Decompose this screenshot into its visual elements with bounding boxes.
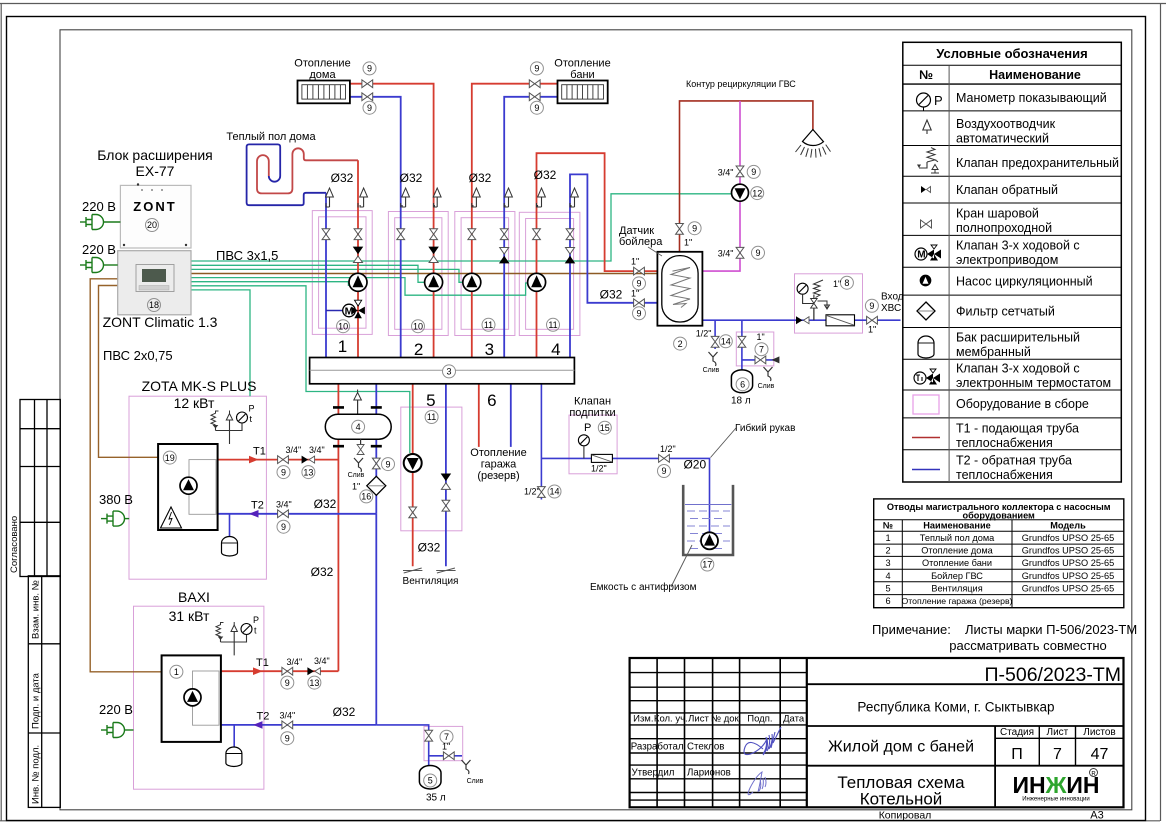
svg-text:электроприводом: электроприводом bbox=[956, 253, 1058, 267]
T2 line bbox=[912, 469, 940, 471]
svg-text:9: 9 bbox=[661, 466, 666, 476]
svg-text:Слив: Слив bbox=[758, 383, 775, 390]
svg-text:Вентиляция: Вентиляция bbox=[403, 576, 459, 587]
svg-text:9: 9 bbox=[281, 522, 286, 532]
pipe red group 4 to DHW tank bbox=[537, 153, 673, 357]
BAXI expansion tank bbox=[226, 747, 242, 767]
pipe blue BAXI boiler tank stub bbox=[233, 725, 235, 748]
signatures bbox=[744, 727, 781, 755]
svg-text:Ø20: Ø20 bbox=[683, 458, 706, 472]
legend symbols bbox=[912, 93, 943, 470]
svg-text:Оборудование в сборе: Оборудование в сборе bbox=[956, 397, 1089, 411]
BAXI boiler body bbox=[162, 655, 221, 742]
svg-text:Grundfos UPSO 25-65: Grundfos UPSO 25-65 bbox=[1022, 558, 1114, 568]
T1 line bbox=[912, 437, 940, 439]
svg-text:380 В: 380 В bbox=[99, 492, 133, 507]
svg-text:3/4": 3/4" bbox=[286, 445, 302, 455]
svg-text:автоматический: автоматический bbox=[956, 132, 1049, 146]
svg-text:7: 7 bbox=[444, 732, 449, 742]
group 5 pump bbox=[404, 454, 422, 472]
BAXI T1 check valve bbox=[307, 667, 320, 675]
svg-text:9: 9 bbox=[534, 103, 539, 113]
svg-text:1: 1 bbox=[338, 337, 347, 356]
ZOTA T1 valve bbox=[278, 456, 289, 464]
svg-text:3/4": 3/4" bbox=[309, 445, 325, 455]
svg-text:Емкость с антифризом: Емкость с антифризом bbox=[590, 581, 697, 593]
pipe blue floor-heating coil return bbox=[247, 144, 326, 205]
equipment box HVS inlet 8 bbox=[795, 274, 863, 333]
svg-text:3/4": 3/4" bbox=[718, 168, 734, 178]
riser stubs for vents bbox=[326, 203, 570, 208]
svg-text:9: 9 bbox=[285, 733, 290, 743]
svg-text:Подп. и дата: Подп. и дата bbox=[31, 672, 42, 729]
svg-text:11: 11 bbox=[484, 320, 493, 330]
cold water check valve bbox=[796, 316, 809, 324]
svg-text:R: R bbox=[1091, 772, 1096, 778]
svg-text:Наименование: Наименование bbox=[989, 68, 1081, 82]
svg-text:12 кВт: 12 кВт bbox=[174, 395, 215, 411]
svg-text:18 л: 18 л bbox=[731, 396, 751, 407]
svg-text:220 В: 220 В bbox=[99, 702, 133, 717]
svg-text:Взам. инв. №: Взам. инв. № bbox=[31, 580, 42, 639]
svg-text:Изм.: Изм. bbox=[633, 714, 653, 725]
svg-text:теплоснабжения: теплоснабжения bbox=[956, 436, 1053, 450]
svg-text:9: 9 bbox=[636, 309, 641, 319]
pipe red collector to separator bbox=[337, 384, 339, 415]
ZONT expansion block EX-77 bbox=[120, 183, 191, 248]
svg-text:Листы марки П-506/2023-ТМ: Листы марки П-506/2023-ТМ bbox=[965, 622, 1137, 637]
makeup drop valve 14 bbox=[538, 487, 546, 498]
svg-text:19: 19 bbox=[165, 453, 175, 463]
svg-text:1": 1" bbox=[442, 742, 450, 752]
pipe red separator down to T1 BAXI bbox=[337, 439, 339, 671]
expansion tank 5 (35 l) bbox=[419, 765, 441, 789]
svg-text:Клапан 3-х ходовой с: Клапан 3-х ходовой с bbox=[956, 362, 1080, 376]
svg-text:Контур рециркуляции ГВС: Контур рециркуляции ГВС bbox=[686, 79, 796, 89]
svg-text:11: 11 bbox=[548, 320, 557, 330]
svg-text:Т2: Т2 bbox=[251, 500, 264, 512]
svg-text:12: 12 bbox=[752, 188, 762, 198]
wire green to pump 3 bbox=[191, 269, 463, 282]
ZOTA T2 arrow bbox=[249, 510, 259, 518]
svg-text:9: 9 bbox=[281, 467, 286, 477]
svg-text:Grundfos UPSO 25-65: Grundfos UPSO 25-65 bbox=[1022, 571, 1114, 581]
svg-text:Листов: Листов bbox=[1083, 727, 1116, 738]
svg-text:14: 14 bbox=[549, 487, 559, 497]
svg-text:4: 4 bbox=[356, 422, 361, 432]
svg-text:Клапан обратный: Клапан обратный bbox=[956, 183, 1058, 197]
svg-text:3/4": 3/4" bbox=[276, 500, 292, 510]
svg-text:№ док.: № док. bbox=[711, 714, 741, 725]
ball valve bbox=[921, 220, 932, 228]
svg-text:Стеклов: Стеклов bbox=[687, 742, 724, 753]
svg-text:9: 9 bbox=[534, 64, 539, 74]
svg-text:ПВС 2х0,75: ПВС 2х0,75 bbox=[103, 348, 173, 363]
wire green to pump 4 bbox=[191, 278, 528, 296]
ZOTA T2 valve bbox=[278, 510, 289, 518]
svg-text:Отопление: Отопление bbox=[294, 58, 350, 70]
svg-text:Т1 - подающая труба: Т1 - подающая труба bbox=[956, 422, 1079, 436]
svg-text:9: 9 bbox=[755, 248, 760, 258]
radiator bath heating bbox=[558, 81, 608, 104]
pumps groups 1-4 bbox=[349, 273, 367, 291]
svg-text:6: 6 bbox=[885, 596, 890, 606]
svg-text:Фильтр сетчатый: Фильтр сетчатый bbox=[956, 305, 1055, 319]
wire green to ZOTA bbox=[191, 290, 250, 396]
svg-text:16: 16 bbox=[361, 492, 371, 502]
svg-text:подпитки: подпитки bbox=[569, 407, 615, 419]
svg-text:2: 2 bbox=[414, 340, 423, 359]
svg-text:бани: бани bbox=[570, 69, 594, 81]
pipe red floor-heating coil supply bbox=[257, 148, 358, 193]
svg-text:3/4": 3/4" bbox=[287, 657, 303, 667]
svg-text:5: 5 bbox=[885, 583, 890, 593]
svg-text:47: 47 bbox=[1091, 746, 1109, 763]
svg-text:9: 9 bbox=[636, 279, 641, 289]
svg-text:1": 1" bbox=[631, 257, 639, 267]
pipe blue T2 down to BAXI bbox=[375, 514, 377, 725]
svg-text:№: № bbox=[883, 521, 893, 531]
pipe red group 3 to bath radiator bbox=[472, 84, 558, 358]
svg-text:1/2": 1/2" bbox=[660, 444, 676, 454]
shower head bbox=[796, 130, 831, 158]
svg-text:Примечание:: Примечание: bbox=[872, 622, 951, 637]
svg-text:Ø32: Ø32 bbox=[331, 171, 354, 185]
pipe blue drop to drain valve 14 bbox=[714, 320, 716, 349]
equipment box BAXI assembly 1 bbox=[134, 606, 264, 789]
filter strainer 16 bbox=[367, 476, 386, 495]
svg-text:Слив: Слив bbox=[703, 367, 720, 374]
equipment box group 4 bbox=[519, 212, 580, 335]
svg-text:Отопление дома: Отопление дома bbox=[921, 546, 993, 556]
svg-text:Подп.: Подп. bbox=[747, 714, 772, 725]
svg-text:Ø32: Ø32 bbox=[418, 541, 441, 555]
svg-text:Утвердил: Утвердил bbox=[632, 768, 675, 779]
left section horizontals bbox=[630, 673, 807, 801]
makeup valve assembly 15 bbox=[578, 435, 612, 463]
plug 380V to ZOTA bbox=[101, 511, 129, 526]
flexible hose leader bbox=[711, 428, 737, 458]
svg-text:Наименование: Наименование bbox=[923, 521, 990, 531]
check valves groups bbox=[354, 247, 363, 263]
pipe blue BAXI to expansion tank 5 bbox=[376, 725, 462, 766]
svg-text:3: 3 bbox=[885, 558, 890, 568]
svg-text:7: 7 bbox=[1053, 746, 1062, 763]
svg-text:1: 1 bbox=[174, 667, 179, 677]
svg-text:Ø32: Ø32 bbox=[333, 705, 356, 719]
svg-text:5: 5 bbox=[426, 391, 435, 410]
svg-text:Кран шаровой: Кран шаровой bbox=[956, 207, 1039, 221]
svg-text:Отопление гаража (резерв): Отопление гаража (резерв) bbox=[902, 596, 1013, 606]
svg-text:3/4": 3/4" bbox=[718, 249, 734, 259]
pipe red group 1 riser bbox=[357, 160, 359, 357]
svg-text:Теплый пол дома: Теплый пол дома bbox=[920, 533, 995, 543]
equipment box ZOTA assembly 19 bbox=[129, 396, 266, 579]
svg-text:Отопление: Отопление bbox=[470, 447, 526, 459]
pipe darkred DHW supply to shower bbox=[680, 101, 813, 252]
pipe blue group 6 garage bbox=[510, 384, 512, 447]
filter bbox=[917, 302, 935, 320]
svg-text:Воздухоотводчик: Воздухоотводчик bbox=[956, 117, 1056, 131]
filter fine box 8 bbox=[826, 315, 855, 326]
drain valve 14 under tank bbox=[711, 336, 719, 347]
ball valves group risers bbox=[322, 229, 330, 240]
hydraulic separator 4 bbox=[325, 390, 391, 480]
svg-text:Инв. № подл.: Инв. № подл. bbox=[31, 745, 42, 804]
svg-text:гаража: гаража bbox=[481, 459, 517, 471]
svg-text:Блок расширения: Блок расширения bbox=[97, 147, 213, 163]
wire brown to BAXI boiler bbox=[90, 279, 161, 672]
svg-text:Бойлер ГВС: Бойлер ГВС bbox=[931, 571, 983, 581]
magenta valves and pump 12 bbox=[736, 166, 744, 177]
svg-text:Ларионов: Ларионов bbox=[687, 768, 731, 779]
svg-text:оборудованием: оборудованием bbox=[963, 511, 1036, 521]
air vents on risers bbox=[326, 188, 334, 207]
svg-text:Гибкий рукав: Гибкий рукав bbox=[735, 422, 795, 434]
pipe blue group 5 ventilation bbox=[445, 384, 447, 567]
svg-text:Клапан 3-х ходовой с: Клапан 3-х ходовой с bbox=[956, 239, 1080, 253]
radiator house heating bbox=[298, 81, 350, 104]
svg-text:ZONT Climatic 1.3: ZONT Climatic 1.3 bbox=[103, 314, 218, 330]
collector 3 bbox=[310, 358, 575, 384]
svg-text:Т2: Т2 bbox=[257, 711, 270, 723]
svg-text:1/2": 1/2" bbox=[696, 329, 712, 339]
svg-text:Клапан предохранительный: Клапан предохранительный bbox=[956, 156, 1119, 170]
plug 220V to ZONT bbox=[80, 258, 118, 273]
pressure reducer box 8 bbox=[797, 280, 829, 320]
expansion tank 6 (18 l) bbox=[731, 370, 752, 393]
svg-text:Ø32: Ø32 bbox=[314, 497, 337, 511]
svg-text:электронным термостатом: электронным термостатом bbox=[956, 376, 1111, 390]
svg-text:Республика Коми, г. Сыктывкар: Республика Коми, г. Сыктывкар bbox=[857, 700, 1054, 715]
3-way valve M group 1 bbox=[326, 300, 365, 318]
svg-text:Слив: Слив bbox=[467, 778, 484, 785]
svg-text:7: 7 bbox=[759, 344, 764, 354]
expansion tank bbox=[918, 336, 934, 358]
svg-text:35 л: 35 л bbox=[426, 793, 446, 804]
wire brown to ZOTA boiler bbox=[99, 286, 159, 458]
pipe blue separator to filter to T2 ZOTA bbox=[375, 439, 377, 514]
svg-text:10: 10 bbox=[338, 321, 348, 331]
pipe red T1 ZOTA bbox=[218, 459, 339, 461]
svg-text:Grundfos UPSO 25-65: Grundfos UPSO 25-65 bbox=[1022, 583, 1114, 593]
equipment box group 1 bbox=[312, 211, 372, 335]
svg-text:теплоснабжения: теплоснабжения bbox=[956, 468, 1053, 482]
svg-text:15: 15 bbox=[600, 423, 610, 433]
svg-text:9: 9 bbox=[692, 223, 697, 233]
svg-text:Т1: Т1 bbox=[256, 657, 269, 669]
svg-text:Р: Р bbox=[584, 422, 591, 434]
ZONT Climatic 1.3 controller bbox=[118, 251, 191, 315]
svg-text:Т1: Т1 bbox=[253, 446, 266, 458]
svg-text:Клапан: Клапан bbox=[574, 396, 611, 408]
pipe red radiator house to group 2 bbox=[350, 84, 434, 358]
BAXI T1 arrow bbox=[253, 667, 263, 675]
INGIN logo bbox=[1012, 769, 1099, 803]
svg-text:Бак расширительный: Бак расширительный bbox=[956, 331, 1080, 345]
svg-text:М: М bbox=[917, 250, 925, 261]
antifreeze tank 17 bbox=[590, 485, 733, 593]
svg-text:П: П bbox=[1011, 746, 1023, 763]
svg-text:бойлера: бойлера bbox=[619, 236, 663, 248]
valve 7 tank 6 bbox=[738, 336, 746, 347]
BAXI pump bbox=[184, 689, 201, 706]
svg-text:А3: А3 bbox=[1090, 810, 1103, 822]
wire brown sensor to boiler tank bbox=[191, 273, 657, 275]
check valve bbox=[921, 186, 931, 193]
svg-text:Условные обозначения: Условные обозначения bbox=[936, 46, 1087, 61]
svg-text:Ø32: Ø32 bbox=[600, 288, 623, 302]
group 5 valves bbox=[409, 507, 417, 518]
valve above filter bbox=[372, 458, 380, 469]
cold water shutoff valve 1" bbox=[867, 316, 878, 324]
pipe blue group 1 riser bbox=[325, 193, 327, 358]
pipe red group 5 ventilation bbox=[412, 384, 414, 567]
svg-text:1/2": 1/2" bbox=[591, 464, 607, 474]
ZOTA safety group bbox=[211, 404, 255, 445]
svg-text:Разработал: Разработал bbox=[631, 742, 684, 753]
pipe blue group 4 to DHW tank bbox=[570, 174, 671, 357]
svg-text:Р: Р bbox=[249, 404, 255, 414]
wire green to pump 12 bbox=[191, 194, 733, 261]
svg-text:Вентиляция: Вентиляция bbox=[931, 583, 982, 593]
svg-text:П-506/2023-ТМ: П-506/2023-ТМ bbox=[985, 664, 1122, 686]
pump bbox=[920, 275, 930, 285]
svg-text:20: 20 bbox=[147, 220, 157, 230]
svg-text:Ø32: Ø32 bbox=[311, 565, 334, 579]
equipment box group 3 bbox=[455, 212, 515, 336]
svg-text:№: № bbox=[919, 68, 933, 82]
darkred valve to tank bbox=[676, 224, 684, 235]
svg-text:BAXI: BAXI bbox=[178, 589, 210, 605]
pipe blue manometer stem box 8 bbox=[813, 295, 815, 321]
svg-text:Вход: Вход bbox=[881, 292, 904, 303]
DHW boiler tank 2 bbox=[657, 252, 702, 326]
ZOTA T1 arrow bbox=[249, 456, 259, 464]
svg-text:3: 3 bbox=[485, 340, 494, 359]
svg-text:Согласовано: Согласовано bbox=[9, 516, 20, 573]
svg-text:Лист: Лист bbox=[688, 714, 709, 725]
svg-text:17: 17 bbox=[702, 560, 712, 570]
BAXI T1 valve bbox=[282, 667, 293, 675]
pipe red T1 BAXI bbox=[221, 670, 339, 672]
manometer+P bbox=[917, 93, 931, 111]
svg-text:11: 11 bbox=[427, 412, 436, 422]
svg-text:мембранный: мембранный bbox=[956, 345, 1031, 359]
pipe blue radiator house to group 2 bbox=[350, 97, 401, 358]
BAXI tank 5 valve bbox=[425, 730, 433, 741]
group 4 riser valves 1" bbox=[634, 267, 645, 275]
svg-text:4: 4 bbox=[551, 340, 560, 359]
svg-text:ИНЖИН: ИНЖИН bbox=[1012, 772, 1099, 798]
plug 220V to BAXI bbox=[101, 723, 134, 738]
svg-text:220 В: 220 В bbox=[82, 242, 116, 257]
pipe blue cold water inlet line bbox=[702, 319, 900, 321]
svg-text:3: 3 bbox=[446, 367, 451, 377]
svg-text:Ø32: Ø32 bbox=[534, 168, 557, 182]
svg-text:18: 18 bbox=[149, 300, 159, 310]
svg-text:Инженерные инновации: Инженерные инновации bbox=[1022, 797, 1090, 803]
left section verticals bbox=[657, 658, 780, 807]
svg-text:13: 13 bbox=[303, 467, 313, 477]
svg-text:Лист: Лист bbox=[1047, 727, 1069, 738]
svg-text:Grundfos UPSO 25-65: Grundfos UPSO 25-65 bbox=[1022, 533, 1114, 543]
svg-text:5: 5 bbox=[428, 776, 433, 786]
radiator house valves bbox=[362, 80, 373, 88]
svg-text:ZOTA MK-S PLUS: ZOTA MK-S PLUS bbox=[142, 378, 257, 394]
svg-text:1": 1" bbox=[684, 238, 692, 248]
pink box sample bbox=[913, 395, 939, 414]
svg-text:ЕХ-77: ЕХ-77 bbox=[136, 163, 175, 179]
svg-text:8: 8 bbox=[844, 278, 849, 288]
3-way motor valve bbox=[915, 245, 941, 261]
svg-text:3/4": 3/4" bbox=[280, 711, 296, 721]
svg-text:1: 1 bbox=[885, 533, 890, 543]
svg-text:Р: Р bbox=[253, 615, 259, 625]
svg-text:6: 6 bbox=[487, 391, 496, 410]
pipe blue ZOTA boiler tank stub bbox=[229, 514, 231, 537]
svg-text:9: 9 bbox=[367, 64, 372, 74]
svg-text:31 кВт: 31 кВт bbox=[169, 608, 210, 624]
ZOTA boiler body bbox=[158, 444, 218, 530]
svg-text:220 В: 220 В bbox=[82, 199, 116, 214]
BAXI T2 arrow bbox=[253, 721, 263, 729]
svg-text:Теплый пол дома: Теплый пол дома bbox=[226, 131, 316, 143]
3-way thermostat valve bbox=[914, 369, 940, 385]
svg-text:Grundfos UPSO 25-65: Grundfos UPSO 25-65 bbox=[1022, 546, 1114, 556]
svg-text:9: 9 bbox=[751, 167, 756, 177]
radiator bath valves bbox=[529, 80, 540, 88]
pipe blue makeup drop from collector bbox=[540, 384, 542, 500]
svg-text:Дата: Дата bbox=[783, 714, 805, 725]
svg-text:9: 9 bbox=[869, 301, 874, 311]
svg-text:1/2": 1/2" bbox=[524, 487, 540, 497]
svg-text:Жилой дом с баней: Жилой дом с баней bbox=[828, 739, 974, 756]
ZOTA expansion tank bbox=[222, 537, 238, 557]
equipment box group 5 bbox=[401, 407, 462, 531]
svg-text:Отопление бани: Отопление бани bbox=[922, 558, 992, 568]
svg-text:3/4": 3/4" bbox=[314, 656, 330, 666]
svg-text:9: 9 bbox=[285, 678, 290, 688]
circled position numbers bbox=[146, 62, 879, 787]
svg-text:ZONT: ZONT bbox=[133, 199, 176, 214]
svg-text:Ø32: Ø32 bbox=[469, 171, 492, 185]
wire green to 3-way valve M1 bbox=[191, 282, 358, 300]
pipe blue group 3 to bath radiator bbox=[504, 97, 557, 358]
pipe red group 6 garage bbox=[478, 384, 480, 447]
svg-text:2: 2 bbox=[678, 339, 683, 349]
svg-text:ХВС: ХВС bbox=[881, 303, 901, 314]
svg-text:4: 4 bbox=[885, 571, 890, 581]
svg-text:1": 1" bbox=[868, 325, 876, 335]
wire green to pump 2 bbox=[191, 265, 425, 282]
svg-text:(резерв): (резерв) bbox=[477, 470, 519, 482]
svg-text:Насос циркуляционный: Насос циркуляционный bbox=[956, 275, 1093, 289]
svg-text:Ø32: Ø32 bbox=[400, 171, 423, 185]
svg-text:Копировал: Копировал bbox=[879, 810, 932, 822]
svg-text:6: 6 bbox=[740, 379, 745, 389]
wire green to sensor and pump 5 bbox=[191, 286, 410, 453]
svg-text:1": 1" bbox=[757, 332, 765, 342]
svg-text:рассматривать совместно: рассматривать совместно bbox=[949, 638, 1107, 653]
BAXI T2 valve bbox=[282, 721, 293, 729]
svg-text:Отопление: Отопление bbox=[554, 58, 610, 70]
svg-text:Т2 - обратная труба: Т2 - обратная труба bbox=[956, 454, 1072, 468]
equipment box makeup valve 15 bbox=[569, 415, 617, 474]
equipment box group 2 bbox=[388, 212, 448, 336]
svg-text:полнопроходной: полнопроходной bbox=[956, 221, 1052, 235]
svg-text:Кол. уч.: Кол. уч. bbox=[654, 714, 688, 725]
